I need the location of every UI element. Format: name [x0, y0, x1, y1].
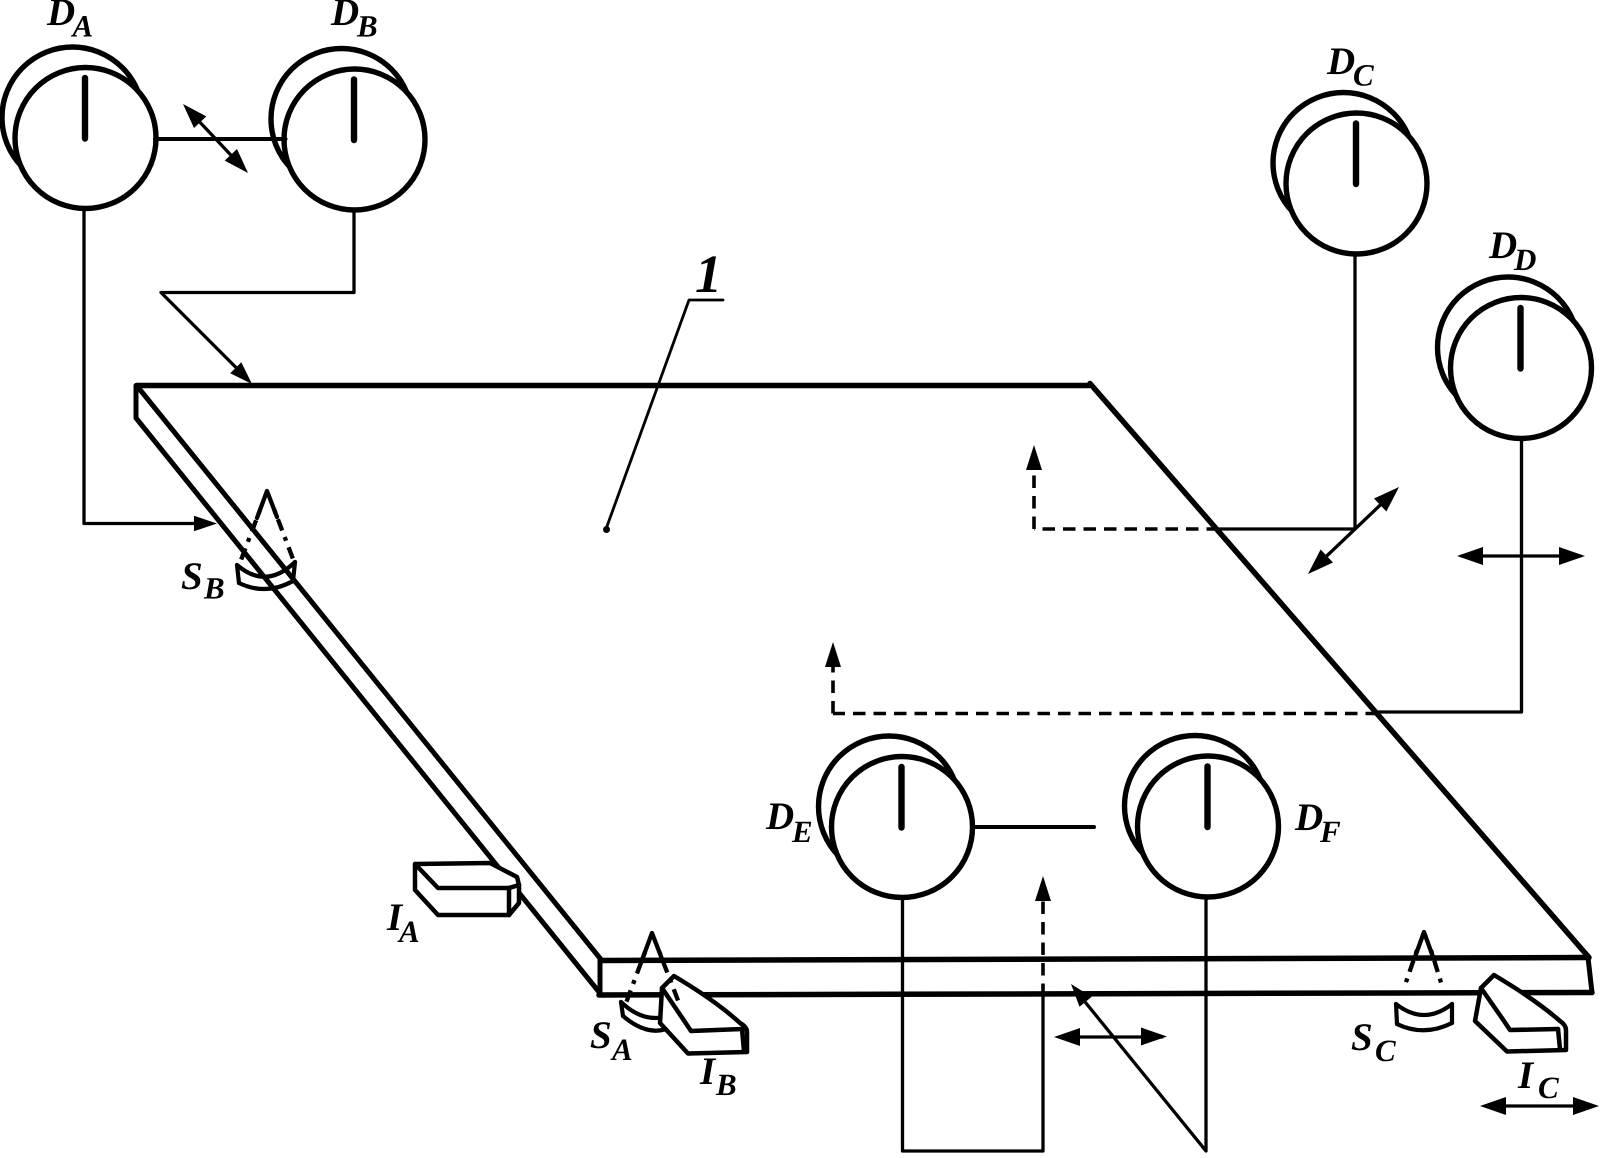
- gauge DC needle: [1353, 124, 1359, 185]
- svg-text:B: B: [715, 1067, 737, 1102]
- plate left edge bottom face: [136, 418, 599, 992]
- wire from DF down with diagonal to plate: [1077, 897, 1206, 1152]
- sensor SB dish: [237, 562, 295, 577]
- gauge DF needle: [1204, 767, 1210, 828]
- block IA: [415, 863, 519, 915]
- gauge DC back circle: [1273, 93, 1414, 234]
- svg-text:A: A: [71, 9, 94, 44]
- sensor SB cone dash-dot sides: [241, 510, 260, 560]
- svg-text:D: D: [330, 0, 359, 34]
- gauge DD main circle: [1451, 298, 1592, 439]
- double arrow under IC: [1486, 1104, 1593, 1107]
- sensor SA dish: [621, 1002, 676, 1018]
- gauge DA needle: [82, 78, 88, 139]
- block IC: [1475, 975, 1566, 1052]
- gauge DF main circle: [1138, 756, 1279, 897]
- wire from DC down: [1219, 254, 1355, 530]
- svg-text:C: C: [1538, 1070, 1559, 1105]
- svg-text:F: F: [1319, 814, 1341, 849]
- gauge DE back circle: [819, 736, 960, 877]
- link line DE-DF: [973, 825, 1095, 829]
- gauge DA back circle: [2, 47, 143, 188]
- svg-text:D: D: [46, 0, 75, 34]
- arrowhead of DF wire to plate bottom edge: [1071, 984, 1092, 1007]
- svg-text:D: D: [1294, 796, 1323, 839]
- gauge DB needle: [351, 80, 357, 141]
- gauge DB back circle: [271, 49, 412, 190]
- sensor SC cone apex: [1415, 932, 1433, 957]
- dashed wire on plate (DC): [1034, 527, 1219, 531]
- gauge DA main circle: [15, 68, 156, 209]
- gauge DD needle: [1517, 308, 1523, 369]
- plate left edge top face: [137, 386, 601, 960]
- plate right edge: [1090, 384, 1589, 958]
- svg-text:S: S: [590, 1014, 612, 1057]
- svg-text:D: D: [1513, 242, 1536, 277]
- svg-text:S: S: [181, 555, 203, 598]
- wire from DD down: [1378, 439, 1522, 713]
- svg-text:S: S: [1351, 1016, 1373, 1059]
- svg-text:I: I: [699, 1050, 717, 1093]
- wire from DE down and under the plate: [903, 897, 1044, 1151]
- leader line of label 1: [606, 300, 723, 529]
- svg-text:E: E: [791, 814, 813, 849]
- arrowhead of DB wire: [230, 362, 252, 384]
- svg-text:A: A: [397, 914, 420, 949]
- gauge DD back circle: [1438, 277, 1579, 418]
- wire from DA down to plate left edge: [84, 208, 196, 524]
- dashed wire up to plate (DE): [1041, 894, 1045, 996]
- dashed up arrowhead (DE): [1035, 876, 1051, 901]
- leader dot on plate: [603, 526, 610, 533]
- gauge DF back circle: [1125, 736, 1266, 877]
- svg-text:C: C: [1353, 58, 1374, 93]
- arrowhead of DA wire: [194, 516, 217, 532]
- svg-text:D: D: [765, 795, 794, 838]
- svg-text:1: 1: [695, 244, 722, 304]
- svg-text:D: D: [1326, 40, 1355, 83]
- svg-text:C: C: [1375, 1033, 1396, 1068]
- diagonal double arrow at plate right edge: [1312, 491, 1395, 570]
- horizontal double arrow through DD wire: [1462, 554, 1580, 557]
- plate bottom-left corner thickness edge: [598, 960, 603, 996]
- sensor SA cone apex: [642, 933, 662, 960]
- link line DA-DB: [155, 137, 286, 141]
- double diagonal arrow between DA and DB: [187, 109, 244, 170]
- svg-text:D: D: [1488, 224, 1517, 267]
- dashed up arrowhead (DD): [825, 642, 841, 667]
- svg-text:I: I: [1517, 1054, 1535, 1097]
- sensor SA cone dash-dot sides: [626, 952, 645, 1003]
- plate front edge bottom face: [599, 993, 1592, 996]
- dashed wire on plate (DD): [833, 712, 1378, 716]
- plate top edge: [136, 383, 1090, 389]
- gauge DB main circle: [284, 69, 425, 210]
- sensor SC cone dash-dot sides: [1404, 950, 1417, 988]
- svg-text:B: B: [356, 9, 378, 44]
- sensor SC dish: [1396, 1004, 1452, 1015]
- gauge DE needle: [898, 767, 904, 828]
- svg-text:B: B: [203, 571, 225, 606]
- sensor SB cone apex: [257, 491, 277, 518]
- horizontal double arrow under plate: [1060, 1035, 1162, 1038]
- plate top-left corner thickness edge: [134, 386, 139, 419]
- plate front-right corner thickness edge: [1588, 958, 1592, 993]
- plate front edge top face: [600, 958, 1588, 961]
- block IB: [660, 976, 747, 1054]
- gauge DC main circle: [1286, 113, 1427, 254]
- gauge DE main circle: [832, 757, 973, 898]
- svg-text:A: A: [610, 1032, 633, 1067]
- wire from DB down to plate top edge: [161, 211, 354, 379]
- dashed up arrowhead (DC): [1026, 445, 1042, 470]
